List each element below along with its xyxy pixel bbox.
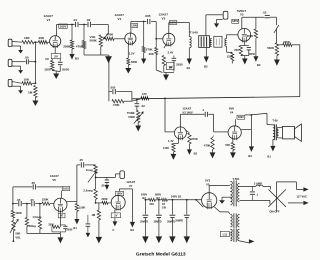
input jack J1 — [8, 39, 23, 53]
resistor 1M ch2 — [91, 203, 102, 244]
wire plate to output transformer — [251, 113, 267, 124]
resistor 220K to V7 — [96, 197, 112, 204]
svg-text:B3: B3 — [194, 152, 198, 156]
capacitor 20MFD filter 1 — [140, 199, 148, 236]
svg-text:V6: V6 — [52, 178, 56, 182]
wire ch2 grid row — [13, 203, 42, 205]
V6 cathode — [48, 212, 73, 244]
wire V4 plate — [236, 115, 252, 126]
resistor 470K lower — [204, 136, 216, 159]
transformer T-501 core — [234, 180, 236, 206]
svg-text:50K: 50K — [15, 232, 20, 236]
svg-text:470: 470 — [142, 92, 147, 96]
resistor 470 coupling — [141, 92, 149, 100]
svg-text:2.4V: 2.4V — [168, 50, 174, 54]
svg-text:VOL: VOL — [15, 236, 21, 240]
node L11 pilot — [220, 231, 230, 236]
svg-text:B3: B3 — [130, 228, 134, 232]
svg-text:20MFD: 20MFD — [154, 220, 162, 223]
svg-text:470K: 470K — [204, 143, 211, 147]
svg-text:.05: .05 — [31, 181, 35, 185]
svg-text:20K: 20K — [39, 36, 45, 40]
svg-text:1K: 1K — [162, 202, 165, 206]
wire input bus — [34, 42, 36, 83]
resistor 470K feedback — [277, 40, 300, 47]
V3 cathode network — [234, 41, 255, 64]
transformer T-09 label — [272, 118, 278, 122]
terminal B3 from V7 — [130, 189, 135, 232]
svg-text:220: 220 — [234, 48, 239, 52]
svg-text:185V: 185V — [232, 19, 238, 23]
svg-text:2V: 2V — [54, 55, 58, 59]
svg-text:V3 140V: V3 140V — [182, 111, 193, 115]
svg-text:200K: 200K — [63, 44, 71, 48]
potentiometer 1meg trem — [86, 165, 97, 189]
resistor 470K tone — [112, 100, 132, 108]
wire V6 plate stub — [60, 191, 62, 199]
svg-text:.01: .01 — [73, 18, 78, 22]
transformer T-540 shield box — [214, 36, 222, 47]
svg-text:220K: 220K — [101, 197, 107, 201]
svg-text:L11: L11 — [223, 233, 228, 237]
wire vol to tone stack — [108, 55, 110, 88]
svg-text:V4: V4 — [230, 110, 234, 114]
svg-text:161V: 161V — [63, 187, 69, 191]
svg-text:1.4V: 1.4V — [168, 139, 174, 143]
wire 6.3V out — [239, 239, 254, 243]
wire plate to cap — [131, 22, 156, 24]
resistor 10K psu — [148, 198, 155, 206]
svg-text:25/50: 25/50 — [176, 62, 183, 66]
svg-text:V1: V1 — [47, 18, 51, 22]
resistor 270K lower — [186, 130, 198, 155]
wire primary bottom — [239, 200, 270, 204]
ground filter cap 3 — [169, 236, 175, 243]
svg-text:1500: 1500 — [44, 68, 51, 72]
tube V3a 12AX7 — [174, 127, 186, 140]
terminal B1 arrow — [187, 48, 192, 70]
footswitch jack — [115, 171, 124, 179]
svg-text:100K: 100K — [15, 211, 21, 215]
wire tremolo tap — [77, 165, 80, 202]
svg-text:20MFD: 20MFD — [167, 220, 175, 223]
svg-text:117 VAC: 117 VAC — [296, 195, 307, 199]
svg-text:ON-OFF: ON-OFF — [269, 210, 280, 214]
resistor 200K grid leak — [247, 17, 261, 67]
svg-text:B3: B3 — [75, 57, 79, 61]
wire to footswitch jack — [95, 177, 116, 179]
wire V3a plate — [180, 114, 204, 127]
svg-text:50/50: 50/50 — [249, 53, 256, 56]
capacitor .05 ch2 top — [31, 181, 36, 189]
wire mains top — [276, 182, 308, 192]
wire plate feedback ch2 — [13, 186, 63, 188]
svg-text:500: 500 — [225, 143, 230, 147]
svg-text:1.2V: 1.2V — [129, 52, 135, 56]
transformer T-501 5V winding — [230, 213, 239, 228]
svg-text:2.2meg: 2.2meg — [83, 189, 93, 193]
capacitor .1 — [202, 108, 214, 117]
V1a cathode network — [44, 47, 69, 79]
terminal B2 lower — [241, 114, 254, 158]
V2 cathode network — [162, 45, 183, 81]
input jack J2 — [8, 59, 23, 73]
resistor 270K — [141, 21, 152, 64]
label V3 — [237, 9, 246, 17]
capacitor .05 ch2 b — [30, 198, 34, 206]
svg-text:.05: .05 — [101, 183, 105, 187]
tone stack box — [109, 88, 132, 101]
ground blob junction — [105, 56, 112, 63]
ground 500K pot — [274, 56, 280, 66]
ground filter cap 2 — [156, 236, 162, 243]
transformer T-501 primary — [238, 183, 240, 202]
potentiometer TONE 500K — [127, 111, 144, 124]
svg-text:10K: 10K — [149, 202, 154, 206]
input jack J3 — [8, 79, 23, 93]
svg-text:1400: 1400 — [163, 146, 169, 150]
wire to V4 grid — [214, 114, 228, 132]
svg-text:1M: 1M — [28, 91, 33, 95]
wire V1b plate — [130, 28, 132, 34]
wire plate bus — [57, 24, 109, 26]
tube V7 12AX7 — [111, 195, 125, 210]
svg-text:T-09: T-09 — [272, 118, 278, 122]
wire V3 plate — [242, 17, 265, 29]
label V1 — [44, 14, 54, 22]
transformer T-540 secondary coil — [225, 39, 227, 47]
V7 cathode to C — [111, 209, 120, 232]
capacitor .01 — [73, 18, 78, 27]
resistor 470K — [76, 24, 86, 55]
wire V6 plate right — [67, 201, 77, 203]
wire to ground blob — [84, 54, 109, 56]
wire B+ bus — [145, 199, 202, 201]
wire mains bottom — [288, 201, 309, 205]
resistor 2200 — [227, 46, 234, 63]
wire V1a plate — [56, 25, 58, 36]
node 280V B2 — [155, 193, 161, 200]
tube V4 6V6 — [228, 126, 241, 140]
resistor 200K plate load — [63, 24, 79, 61]
ground filter cap 1 — [142, 236, 148, 243]
transformer T-501 label — [232, 177, 240, 181]
svg-text:.02: .02 — [263, 11, 267, 15]
label V4 — [229, 107, 235, 115]
tube V1b 12AX7 — [125, 33, 136, 45]
capacitor .05 ch2 a — [16, 198, 21, 206]
resistor 470K to grid — [105, 33, 125, 41]
resistor 1M input — [28, 86, 37, 98]
svg-text:470K: 470K — [283, 40, 291, 44]
svg-text:470K: 470K — [113, 103, 120, 107]
capacitor .02 — [86, 18, 91, 27]
capacitor .05 J2 — [14, 55, 36, 64]
svg-text:B1: B1 — [187, 66, 191, 70]
transformer T-09 primary — [267, 125, 275, 140]
svg-text:B2: B2 — [248, 154, 252, 158]
svg-text:.05: .05 — [24, 55, 29, 59]
svg-text:.005: .005 — [110, 85, 116, 89]
potentiometer VOL ch2 — [10, 218, 21, 242]
potentiometer 500K — [267, 43, 278, 56]
capacitor .05 footswitch — [101, 177, 109, 190]
svg-text:B1: B1 — [73, 226, 77, 230]
node 180V — [169, 20, 176, 24]
wire primary top to fuse — [239, 185, 256, 187]
svg-text:V7: V7 — [129, 184, 133, 188]
svg-text:.005: .005 — [145, 14, 151, 18]
node bus junction — [34, 41, 39, 43]
capacitor 20MFD filter 2 — [154, 199, 162, 236]
V1b cathode — [125, 44, 137, 74]
svg-text:1W: 1W — [169, 65, 173, 69]
svg-text:340V B1: 340V B1 — [171, 195, 182, 199]
wire rectifier filament — [196, 200, 230, 214]
wire .02 to VOL wiper — [103, 25, 109, 40]
terminal B1 output — [267, 139, 275, 158]
svg-text:2V: 2V — [114, 214, 117, 218]
wire rectifier plate — [209, 185, 230, 192]
tube V6 12AX7 — [54, 198, 67, 212]
fuse 2AMP — [254, 182, 271, 190]
wire to speed pot — [274, 17, 279, 43]
terminal B2 arrow — [204, 48, 209, 69]
switch ON-OFF — [268, 182, 286, 211]
svg-text:1meg: 1meg — [86, 168, 93, 172]
transformer T-540 core box — [199, 36, 210, 48]
capacitor 20MFD filter 3 — [167, 199, 175, 236]
resistor 20K grid stopper — [38, 36, 47, 44]
svg-text:B3: B3 — [257, 63, 261, 67]
resistor 20K — [149, 22, 163, 73]
svg-text:180V: 180V — [238, 115, 244, 119]
svg-text:10K: 10K — [24, 36, 30, 40]
transformer T-09 secondary — [277, 127, 279, 137]
svg-text:20MFD: 20MFD — [140, 220, 148, 223]
svg-text:5600: 5600 — [131, 60, 138, 64]
wire HV center tap — [219, 197, 231, 204]
tube V5 5Y3 rectifier — [202, 193, 217, 209]
wire bus to V3a grid — [164, 98, 174, 132]
wire V2 grid — [155, 38, 163, 40]
resistor 10K J3 — [14, 78, 36, 85]
label V6 — [50, 174, 59, 182]
svg-text:200K: 200K — [247, 34, 254, 38]
resistor 1Meg ch2 — [25, 203, 36, 234]
svg-text:.47: .47 — [60, 215, 64, 218]
tube V1a 12AX7 — [50, 36, 61, 48]
capacitor .005 tone — [110, 85, 116, 94]
wire V2 plate — [169, 23, 190, 37]
ground input bus — [32, 98, 38, 107]
capacitor .02 trem — [263, 11, 277, 18]
svg-text:.02: .02 — [86, 18, 91, 22]
svg-text:C: C — [112, 228, 114, 232]
node 180V lower — [237, 115, 245, 119]
svg-text:C8: C8 — [45, 57, 49, 61]
svg-text:1Meg: 1Meg — [29, 224, 36, 228]
wire ch2 bottom bus — [27, 232, 61, 234]
title Gretsch Model — [136, 251, 186, 257]
tube V2 12AX7 — [163, 33, 175, 46]
node tone tap — [136, 99, 138, 103]
speaker jack — [206, 11, 228, 35]
svg-text:270K: 270K — [146, 48, 153, 52]
label V5 — [205, 179, 211, 187]
ground tone pot — [135, 123, 141, 132]
svg-text:.02: .02 — [141, 104, 145, 108]
wire V1a grid — [48, 41, 50, 43]
resistor 100K ch2 — [11, 204, 22, 218]
resistor 2.2meg — [83, 189, 97, 204]
tube V3 6V6 — [238, 28, 251, 42]
node 161V — [62, 186, 69, 190]
transformer T-540 mid coil — [210, 39, 212, 47]
svg-text:Gretsch Model G6113: Gretsch Model G6113 — [136, 251, 186, 257]
resistor 1.5Meg ch2 — [32, 203, 41, 234]
label V1b — [115, 13, 125, 21]
svg-text:V3: V3 — [240, 13, 244, 17]
svg-text:270K: 270K — [191, 137, 197, 141]
capacitor .005 — [145, 14, 151, 24]
V3a cathode — [163, 139, 179, 160]
V4 cathode — [225, 139, 235, 158]
capacitor .02 tone — [135, 104, 146, 111]
label 117VAC — [296, 195, 307, 199]
node 340V B1 — [171, 195, 182, 199]
svg-text:25/50: 25/50 — [66, 228, 73, 231]
label V3a — [182, 107, 193, 115]
svg-text:500K: 500K — [267, 46, 275, 50]
svg-text:20K: 20K — [149, 52, 154, 56]
label V2 — [159, 13, 169, 21]
svg-text:500K: 500K — [90, 39, 98, 43]
svg-text:150K: 150K — [79, 206, 85, 210]
svg-text:2200: 2200 — [227, 55, 233, 59]
wire long bus right — [299, 45, 301, 97]
svg-text:1W: 1W — [162, 206, 166, 210]
svg-text:25/50: 25/50 — [62, 68, 69, 72]
svg-text:20MFD: 20MFD — [175, 219, 183, 222]
wire tone out — [132, 99, 141, 101]
node 185V — [232, 19, 239, 23]
node 190V — [115, 191, 123, 195]
potentiometer VOL 500K — [90, 35, 103, 55]
svg-text:162V: 162V — [60, 24, 67, 28]
resistor 10K grid stopper J1 — [14, 36, 34, 44]
capacitor 20MFD filter 4 — [175, 200, 189, 237]
capacitor .1 line — [250, 186, 259, 200]
node 120V — [131, 23, 138, 27]
svg-text:190V: 190V — [116, 192, 122, 196]
wire V7 plate — [119, 189, 132, 192]
resistor 220K ch2 — [42, 197, 54, 205]
svg-text:1.5meg: 1.5meg — [32, 215, 41, 219]
resistor 150K plate load — [73, 202, 85, 230]
svg-text:T-540: T-540 — [190, 31, 198, 35]
svg-text:12AX7: 12AX7 — [182, 107, 191, 111]
resistor 1K 1W psu — [161, 198, 167, 209]
transformer T-09 core — [275, 124, 277, 140]
wire secondary to V3 grid — [227, 35, 238, 39]
svg-text:120V: 120V — [131, 23, 137, 27]
svg-text:B1: B1 — [267, 155, 271, 159]
svg-text:220K: 220K — [42, 197, 49, 201]
svg-text:10K: 10K — [24, 78, 30, 82]
capacitor .05 trem tap — [79, 158, 96, 167]
ground filter cap 4 — [184, 236, 190, 243]
transformer T-540 primary coil — [189, 37, 191, 48]
label V7 — [126, 180, 135, 188]
svg-text:V1: V1 — [118, 17, 122, 21]
wire ch2 input — [12, 187, 14, 205]
node 162V — [59, 24, 67, 28]
capacitor 25 ch2 — [86, 215, 91, 238]
label ON-OFF — [269, 210, 280, 214]
svg-text:.05: .05 — [79, 158, 83, 162]
svg-text:500K: 500K — [128, 115, 135, 119]
svg-text:3300: 3300 — [48, 223, 54, 226]
ground speaker jack — [214, 19, 219, 27]
transformer T-501 6.3V winding — [230, 228, 239, 242]
svg-text:.05: .05 — [30, 198, 34, 202]
svg-text:470K: 470K — [76, 44, 84, 48]
svg-text:V2: V2 — [162, 17, 166, 21]
node 240V B3 — [141, 193, 147, 200]
wire long horizontal bus — [132, 97, 300, 99]
speaker — [279, 124, 302, 141]
svg-text:B2: B2 — [204, 64, 208, 68]
svg-text:.05: .05 — [16, 198, 20, 202]
svg-text:470K: 470K — [106, 33, 114, 37]
transformer T-501 HV winding — [230, 181, 232, 205]
transformer T-540 label — [190, 31, 198, 35]
